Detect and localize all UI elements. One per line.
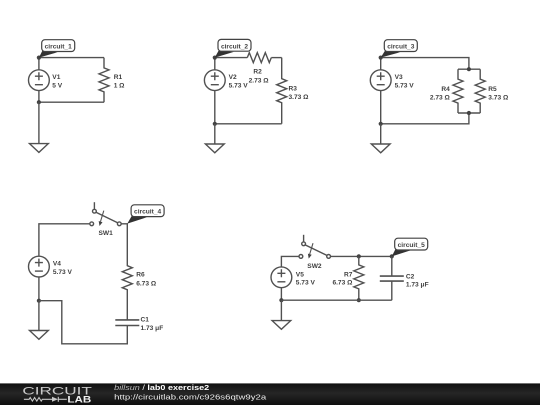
wire circuit3 bottom rail xyxy=(381,113,469,124)
wire circuit5 top rail xyxy=(331,255,392,257)
svg-text:V5: V5 xyxy=(296,271,304,278)
node circuit3 split bottom xyxy=(467,111,471,115)
wire circuit4 switch to R6 xyxy=(121,224,127,241)
voltage source V5 xyxy=(271,267,292,288)
resistor R2 xyxy=(247,53,271,63)
svg-text:V2: V2 xyxy=(229,74,237,81)
ground circuit1 xyxy=(30,102,49,152)
svg-text:circuit_5: circuit_5 xyxy=(398,242,425,249)
svg-text:V1: V1 xyxy=(52,74,60,81)
resistor R5 xyxy=(475,69,485,113)
resistor R7 xyxy=(354,256,364,300)
wire circuit3 top rail xyxy=(381,58,469,70)
voltage source V2 xyxy=(204,70,225,91)
svg-text:1.73 μF: 1.73 μF xyxy=(406,282,429,289)
svg-text:V4: V4 xyxy=(53,261,61,268)
ground circuit2 xyxy=(205,124,224,153)
node circuit3 bottom xyxy=(379,122,383,126)
svg-text:LAB: LAB xyxy=(67,395,91,405)
node circuit5 R7 top xyxy=(357,254,361,258)
wire circuit5 bottom rail xyxy=(281,299,391,301)
resistor R1 xyxy=(99,58,109,103)
wire circuit4 switch to V4 xyxy=(39,224,90,256)
svg-text:2.73 Ω: 2.73 Ω xyxy=(430,94,451,101)
node circuit3 top xyxy=(379,56,383,60)
label circuit_4 xyxy=(127,205,164,224)
svg-text:http://circuitlab.com/c926s6qt: http://circuitlab.com/c926s6qtw9y2a xyxy=(114,393,267,402)
svg-text:C2: C2 xyxy=(406,273,415,280)
wire circuit3 parallel bottom bar xyxy=(458,112,480,114)
ground circuit5 xyxy=(272,300,291,329)
wire circuit4 V4 bottom lead xyxy=(38,277,40,301)
node circuit1 bottom xyxy=(37,100,41,104)
node circuit2 bottom xyxy=(213,122,217,126)
wire circuit5 V5 bottom lead xyxy=(280,288,282,301)
svg-text:circuit_1: circuit_1 xyxy=(45,44,72,51)
node circuit5 C2 top xyxy=(390,254,394,258)
label circuit_1 xyxy=(39,40,75,58)
wire circuit2 bottom rail xyxy=(215,123,282,125)
wire circuit3 V3 top lead xyxy=(380,58,382,70)
voltage source V3 xyxy=(370,70,391,91)
voltage source V4 xyxy=(29,256,50,277)
voltage source V1 xyxy=(29,70,50,91)
svg-text:circuit_4: circuit_4 xyxy=(134,209,161,216)
wire circuit2 top rail right xyxy=(271,57,281,59)
svg-text:6.73 Ω: 6.73 Ω xyxy=(136,280,157,287)
svg-text:SW1: SW1 xyxy=(99,230,114,237)
svg-text:5.73 V: 5.73 V xyxy=(53,269,73,276)
resistor R3 xyxy=(277,58,287,124)
svg-text:R2: R2 xyxy=(253,69,262,76)
label circuit_3 xyxy=(381,40,418,58)
switch SW2 xyxy=(299,235,331,259)
label circuit_2 xyxy=(215,39,251,57)
svg-text:R5: R5 xyxy=(488,86,497,93)
wire circuit2 V2 bottom lead xyxy=(214,91,216,124)
node circuit1 top xyxy=(37,56,41,60)
node circuit5 R7 bottom xyxy=(357,298,361,302)
wire circuit1 bottom rail xyxy=(39,101,104,103)
svg-text:5.73 V: 5.73 V xyxy=(229,82,249,89)
node circuit4 bottom xyxy=(37,299,41,303)
svg-text:5.73 V: 5.73 V xyxy=(395,82,415,89)
svg-text:circuit_2: circuit_2 xyxy=(221,43,248,50)
ground circuit3 xyxy=(371,124,390,153)
svg-text:R4: R4 xyxy=(441,86,450,93)
svg-text:C1: C1 xyxy=(141,317,150,324)
wire circuit5 C2 bottom lead xyxy=(391,281,393,300)
wire circuit3 parallel top bar xyxy=(458,68,480,70)
svg-text:R3: R3 xyxy=(289,85,298,92)
resistor R6 xyxy=(122,241,132,320)
svg-text:1 Ω: 1 Ω xyxy=(114,83,125,90)
svg-text:billsun / lab0 exercise2: billsun / lab0 exercise2 xyxy=(114,383,209,392)
label circuit_5 xyxy=(392,238,428,256)
wire circuit2 V2 top lead xyxy=(214,58,216,70)
wire circuit3 V3 bottom lead xyxy=(380,91,382,124)
svg-text:5.73 V: 5.73 V xyxy=(296,280,316,287)
capacitor C2 xyxy=(380,276,404,281)
svg-text:circuit_3: circuit_3 xyxy=(387,44,414,51)
svg-text:R1: R1 xyxy=(114,74,123,81)
wire circuit1 V1 top lead xyxy=(38,58,40,70)
wire circuit2 top rail left xyxy=(215,57,248,59)
logo resistor diode glyph xyxy=(24,397,67,402)
svg-text:V3: V3 xyxy=(395,74,403,81)
svg-text:6.73 Ω: 6.73 Ω xyxy=(332,280,353,287)
svg-text:3.73 Ω: 3.73 Ω xyxy=(289,94,310,101)
svg-text:SW2: SW2 xyxy=(307,263,322,270)
node circuit3 split top xyxy=(467,67,471,71)
switch SW1 xyxy=(90,202,121,226)
wire circuit1 top rail xyxy=(39,57,104,59)
svg-text:1.73 μF: 1.73 μF xyxy=(141,325,164,332)
wire circuit5 switch to V5 xyxy=(281,256,299,267)
svg-text:5 V: 5 V xyxy=(52,82,62,89)
wire circuit1 V1 bottom lead xyxy=(38,91,40,103)
svg-text:R6: R6 xyxy=(136,272,145,279)
svg-text:3.73 Ω: 3.73 Ω xyxy=(488,94,509,101)
wire circuit4 bottom return xyxy=(39,301,127,344)
ground circuit4 xyxy=(30,301,49,340)
svg-text:R7: R7 xyxy=(344,271,353,278)
node circuit2 top xyxy=(213,56,217,60)
resistor R4 xyxy=(453,69,463,113)
svg-text:2.73 Ω: 2.73 Ω xyxy=(249,77,270,84)
capacitor C1 xyxy=(115,320,139,326)
footer bar xyxy=(0,383,540,405)
wire circuit5 C2 top lead xyxy=(391,256,393,276)
node circuit5 bottom left xyxy=(279,298,283,302)
